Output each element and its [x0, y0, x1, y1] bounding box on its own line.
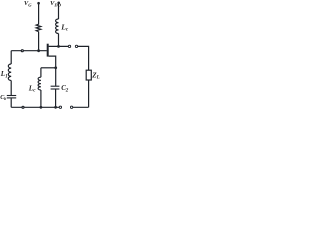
svg-text:ZL: ZL [91, 72, 99, 81]
svg-text:C2: C2 [61, 84, 68, 93]
svg-text:Cb: Cb [0, 95, 6, 101]
svg-text:Lc: Lc [60, 22, 69, 32]
svg-text:L1: L1 [0, 70, 8, 79]
svg-text:VDD: VDD [50, 0, 62, 7]
svg-text:Lc: Lc [28, 84, 36, 93]
svg-text:VG: VG [24, 0, 32, 7]
